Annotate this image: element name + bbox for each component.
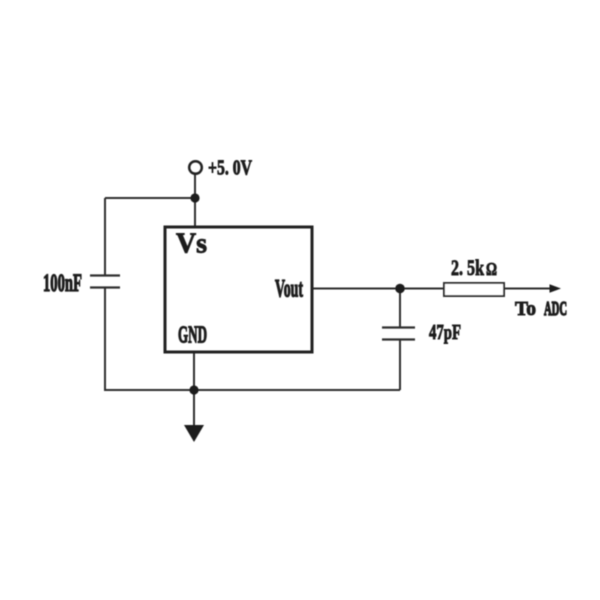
svg-text:Ω: Ω [486,259,497,279]
svg-text:100nF: 100nF [43,270,82,297]
svg-text:GND: GND [178,323,207,349]
svg-text:Vs: Vs [176,229,207,260]
svg-text:To: To [515,298,536,320]
svg-text:47pF: 47pF [429,320,461,344]
svg-text:Vout: Vout [275,276,303,303]
svg-text:2. 5k: 2. 5k [451,255,485,280]
svg-text:+5. 0V: +5. 0V [208,156,252,180]
svg-text:ADC: ADC [544,298,567,320]
